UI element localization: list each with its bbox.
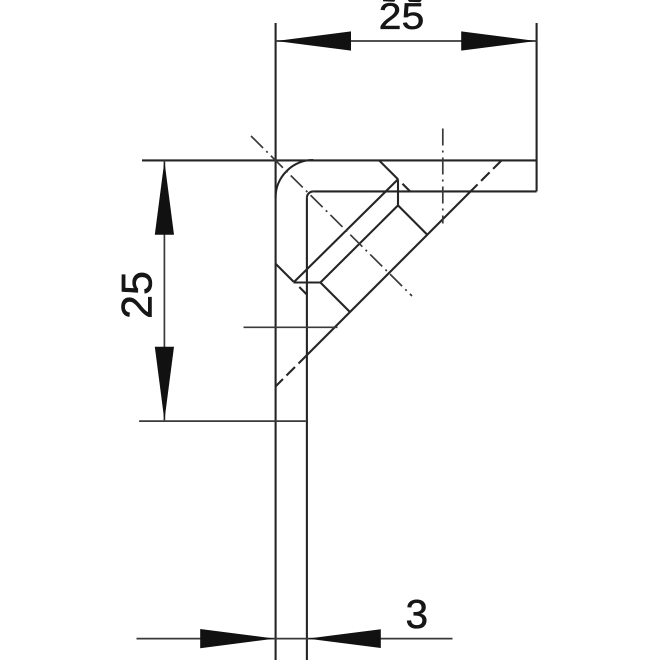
- top dimension left arrowhead: [276, 31, 351, 50]
- top dimension line 25: [276, 40, 537, 42]
- left dimension bottom extension line: [139, 420, 306, 422]
- strap short diagonal c: [320, 283, 350, 313]
- top dimension right arrowhead: [461, 31, 536, 50]
- hole centre line horizontal: [244, 326, 338, 328]
- right end face of horizontal leg with top extension line: [536, 23, 538, 191]
- strap middle diagonal B-C: [320, 205, 398, 282]
- strap left edge through vertical leg (inner part): [299, 287, 307, 295]
- left dimension bottom arrowhead: [155, 347, 174, 421]
- inner corner fillet r6: [307, 191, 313, 197]
- dimension text 3 bottom: [407, 600, 426, 629]
- strap outer diagonal hidden in vertical leg: [276, 355, 307, 386]
- dimension text 25 top: [381, 3, 423, 29]
- strap outer long diagonal D_out solid: [307, 191, 471, 355]
- hole centre line vertical: [442, 129, 444, 224]
- corner arc r38: [276, 160, 314, 198]
- dimension text 25 left rotated: [121, 273, 151, 317]
- bottom dimension line 3: [137, 638, 453, 640]
- bottom dimension left arrowhead: [200, 629, 275, 648]
- left dimension top arrowhead: [155, 161, 174, 235]
- strap short diagonal b: [398, 205, 427, 234]
- cropped dimension text fragment right: [408, 0, 422, 2]
- outer face of vertical leg with top extension line: [275, 23, 277, 660]
- strap horizontal edge C-D: [294, 281, 321, 283]
- strap outer diagonal hidden in horizontal leg: [471, 160, 502, 191]
- strap inner long diagonal D_in: [294, 179, 399, 282]
- left dimension line 25: [163, 160, 165, 421]
- strap vertical edge A-B: [397, 179, 399, 205]
- cropped dimension text fragment left: [383, 0, 396, 2]
- strap left edge through vertical leg (outer part): [276, 264, 294, 282]
- bottom dimension right arrowhead: [308, 629, 381, 648]
- inner face of vertical leg: [306, 198, 308, 660]
- inner face of horizontal leg: [313, 190, 536, 192]
- strap upper edge through horizontal leg (outer part): [379, 160, 398, 179]
- top face of horizontal leg with left extension line: [142, 159, 537, 161]
- strap upper edge through horizontal leg (inner part): [403, 184, 411, 192]
- corner axis centre line 45deg: [251, 136, 412, 296]
